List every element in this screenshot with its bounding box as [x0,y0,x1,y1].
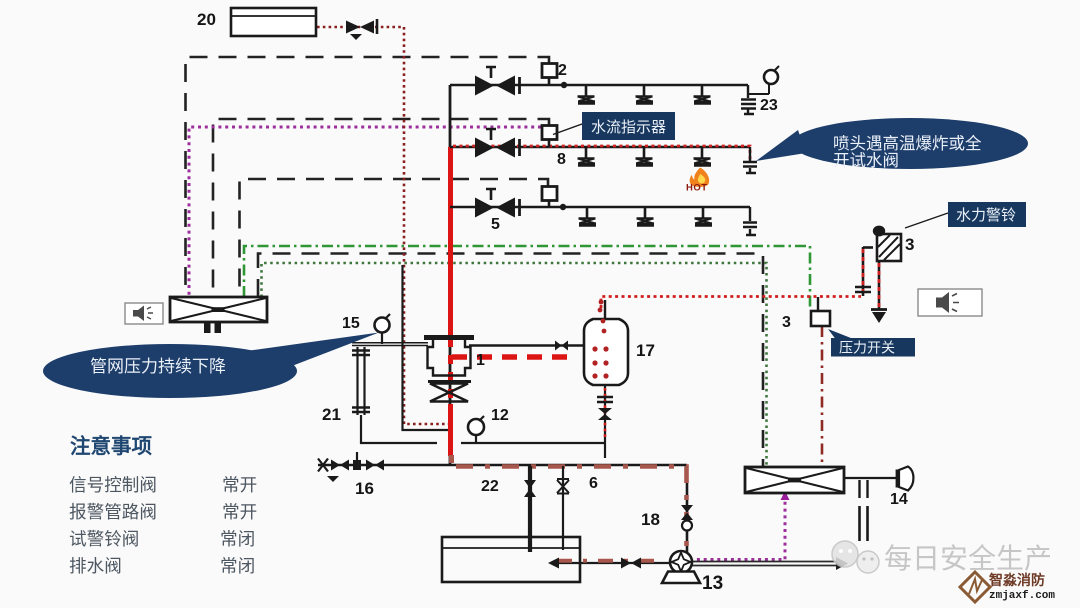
svg-text:HOT: HOT [686,183,708,194]
wire: dark-red dotted line from roof tank [317,27,448,424]
pipe: cross main above branch 3 (dashed wire to indicator 5) end link [450,146,750,149]
svg-text:zmjaxf.com: zmjaxf.com [989,590,1055,602]
sprinkler heads branch 2 [578,147,596,165]
svg-text:12: 12 [491,407,509,424]
svg-text:13: 13 [702,573,723,594]
svg-text:管网压力持续下降: 管网压力持续下降 [90,357,226,376]
valve 22 on drop pipe [524,480,536,497]
svg-text:2: 2 [558,62,567,79]
svg-text:排水阀: 排水阀 [69,556,122,576]
svg-text:18: 18 [641,510,660,529]
svg-text:1: 1 [476,352,485,369]
pipe: retard chamber drain down [604,385,606,458]
pipe: supply vertical to pump [686,465,689,552]
svg-text:智淼消防: 智淼消防 [988,572,1045,588]
flow: red riser overlay lower [448,404,453,456]
svg-text:3: 3 [905,235,914,254]
pipe: double drain standpipe below horn [860,506,868,541]
sprinkler heads branch 1 [578,85,596,103]
svg-text:注意事项: 注意事项 [70,434,152,458]
signal butterfly valve on branch 1 [475,67,520,96]
pipe: pump suction from reservoir [556,562,669,564]
pipe: black corner tank drain joining riser [403,265,449,430]
svg-text:常开: 常开 [222,475,257,495]
standpipe 21 [352,347,370,415]
svg-text:21: 21 [322,405,341,424]
signal butterfly valve on branch 2 [475,129,520,158]
arrow: drain arrowhead [836,557,848,570]
wire: green dash-dot line control panel to pressure switch [244,246,810,308]
wire: black dashed line between control panels [258,254,763,467]
pressure gauge 15 [375,314,391,344]
drain valve assembly 16 [318,452,384,482]
notes row 3 [69,529,255,549]
notes row 4 [69,556,255,576]
fire pump 13 [662,551,700,583]
svg-text:每日安全生产: 每日安全生产 [884,543,1052,574]
flow indicator on branch 3 [542,187,557,208]
svg-text:常闭: 常闭 [220,556,255,576]
check valve under retard chamber [597,397,613,420]
callout box: hydraulic alarm gong [905,202,1026,228]
end test valve 23 with gauge on branch 1 [741,66,779,114]
pipe: drop pipe 22 into reservoir [528,466,532,552]
svg-text:8: 8 [557,151,566,168]
pipe: gauge line left of alarm valve [352,343,428,346]
callout box: pressure switch [828,329,915,357]
suction arrow inside tank [548,558,559,569]
svg-text:常开: 常开 [222,502,257,522]
check valve on tank outlet [346,19,377,40]
pipe: bottom drain double line with arrow [692,562,837,566]
flow indicator on branch 2 [542,126,557,148]
svg-text:17: 17 [636,341,655,360]
check valve on suction line [621,558,641,569]
flow: red dotted overlay below retard chamber [604,388,607,438]
svg-text:水流指示器: 水流指示器 [591,119,666,136]
wire: dark-red dash-dot from pressure switch to control panel 2 [821,326,824,466]
callout box: water flow indicator [553,112,675,140]
HOT flame icon [686,168,709,194]
flow: brown dash riser foot [449,455,454,467]
sprinkler heads branch 3 [579,207,597,225]
pipe: riser main vertical [449,85,452,465]
small valve on retard chamber inlet [555,341,568,351]
zhimiao logo diamond [960,572,990,602]
svg-text:14: 14 [890,491,908,508]
svg-text:试警铃阀: 试警铃阀 [69,529,139,549]
pressure switch 3 [811,297,830,326]
roof tank 20 [231,8,316,36]
svg-text:常闭: 常闭 [220,529,255,549]
svg-text:压力开关: 压力开关 [839,340,895,356]
pipe: branch 1 horizontal [450,84,748,87]
pipe: drain collector line [361,415,605,443]
pipe: panel 2 to horn 14 [844,477,896,479]
reservoir tank [442,537,580,582]
svg-text:水力警铃: 水力警铃 [956,207,1016,224]
wire: black dashed signal loop from flow indicator 8 to control panel [213,119,549,297]
svg-text:22: 22 [481,478,499,495]
water motor gong 3 [855,226,901,323]
svg-text:23: 23 [760,97,778,114]
svg-text:16: 16 [355,479,374,498]
pipe: alarm valve outlet to retard chamber [469,344,584,346]
flow: red riser overlay upper [448,147,453,338]
wire: purple dotted detector line to control panel [189,127,541,297]
pipe: branch 3 horizontal [450,206,750,209]
svg-text:开试水阀: 开试水阀 [833,151,899,170]
wire: black dashed signal loop from flow indicator 2 to control panel [186,57,550,297]
flow: brown dash overlay on suction [557,559,663,563]
svg-text:报警管路阀: 报警管路阀 [69,502,157,522]
test valve 6 on drop pipe [557,479,569,494]
pipe: drop pipe 6 into reservoir [562,466,564,550]
speech bubble: pipe network pressure keeps dropping [43,333,379,399]
svg-text:5: 5 [491,216,500,233]
alarm horn 14 [897,467,913,491]
flow: red dashes through alarm valve [448,338,453,404]
speaker icon box left [125,303,163,324]
end test valve on branch 2 [743,147,757,173]
svg-text:6: 6 [589,475,598,492]
watermark logo circles [832,541,879,573]
speech bubble: sprinkler bursts at high temperature [756,118,1028,170]
arrow: purple arrowhead at panel 2 [781,491,790,500]
flow: red dotted overlay on branch 2 [453,146,750,163]
fire alarm control panel (left) [170,297,267,333]
wire: black dashed signal loop from flow indicator 5 to control panel [240,179,549,297]
end test valve on branch 3 [743,207,757,235]
svg-text:信号控制阀: 信号控制阀 [69,475,157,495]
signal butterfly valve on branch 3 [475,189,520,218]
pipe: bottom main horizontal [318,464,687,467]
flow indicator on branch 1 [542,64,557,86]
pipe: union ticks under horn line [860,480,868,498]
flow: brown dash-dot supply overlay [456,467,687,552]
notes row 2 [69,502,257,522]
wire: red dotted alarm line from retard chamber to water gong [601,297,861,309]
node: junction on branch 3 [560,204,566,210]
retard chamber 17 [584,300,628,385]
svg-text:喷头遇高温爆炸或全: 喷头遇高温爆炸或全 [833,134,982,153]
wire: purple dotted pump feedback to control panel 2 [693,495,785,560]
alarm check valve 1 [424,338,474,402]
pressure gauge 12 [468,416,484,443]
svg-text:3: 3 [782,314,791,331]
node: junction on branch 1 [561,82,567,88]
valve 18 on supply drop [681,505,693,531]
speaker icon box right [918,289,982,316]
svg-text:20: 20 [197,10,216,29]
fire alarm control panel (right) [745,467,844,493]
flow: thick red dashes alarm valve to retard chamber [452,354,577,359]
notes row 1 [69,475,257,495]
svg-text:15: 15 [342,315,360,332]
wire: green dotted line between control panels [262,263,767,466]
